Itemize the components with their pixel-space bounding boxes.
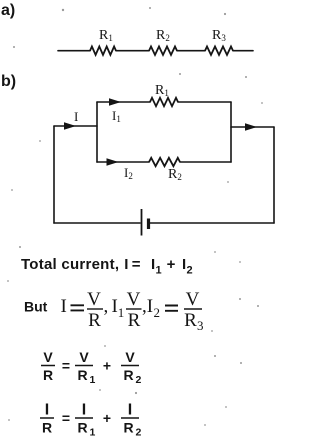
svg-text:R: R bbox=[184, 310, 197, 331]
resistor R3 bbox=[205, 47, 233, 55]
wire right vertical bbox=[273, 127, 275, 223]
svg-text:R: R bbox=[123, 367, 133, 383]
svg-text:+: + bbox=[103, 358, 111, 374]
resistor R2 bbox=[149, 47, 177, 55]
wire main input bbox=[54, 125, 97, 127]
wire output bbox=[231, 126, 274, 128]
svg-text:I: I bbox=[124, 256, 128, 273]
svg-text:V: V bbox=[127, 289, 141, 310]
svg-text:3: 3 bbox=[197, 318, 204, 333]
svg-text:V: V bbox=[79, 349, 89, 365]
arrow I bbox=[64, 122, 76, 130]
svg-text:1: 1 bbox=[90, 427, 96, 439]
svg-text:R: R bbox=[42, 420, 52, 436]
svg-text:2: 2 bbox=[154, 305, 161, 320]
arrow out bbox=[245, 123, 257, 131]
svg-text:R: R bbox=[88, 310, 101, 331]
wire bbox=[177, 50, 205, 52]
svg-text:=: = bbox=[62, 358, 70, 374]
arrow I1 bbox=[109, 98, 121, 106]
svg-text:1: 1 bbox=[90, 374, 96, 386]
svg-text:=: = bbox=[62, 410, 70, 426]
wire junction right bbox=[230, 102, 232, 162]
wire top branch right bbox=[178, 101, 231, 103]
wire bottom left bbox=[54, 222, 140, 224]
svg-text:R: R bbox=[77, 420, 87, 436]
svg-text:1: 1 bbox=[156, 265, 162, 277]
svg-text:2: 2 bbox=[136, 427, 142, 439]
arrow I2 bbox=[107, 158, 119, 166]
svg-text:R: R bbox=[77, 367, 87, 383]
wire bottom branch left bbox=[97, 161, 149, 163]
svg-text:+: + bbox=[167, 256, 176, 273]
svg-text:But: But bbox=[24, 299, 48, 315]
wire junction left bbox=[96, 102, 98, 162]
svg-text:b): b) bbox=[1, 73, 16, 90]
svg-text:V: V bbox=[43, 349, 53, 365]
battery bbox=[141, 209, 143, 236]
svg-text:Total current,: Total current, bbox=[21, 256, 119, 273]
svg-text:1: 1 bbox=[118, 305, 125, 320]
svg-text:=: = bbox=[132, 256, 141, 273]
wire bottom branch right bbox=[180, 161, 231, 163]
svg-text:R: R bbox=[128, 310, 141, 331]
wire bbox=[58, 50, 90, 52]
svg-text:,: , bbox=[104, 296, 109, 317]
svg-text:V: V bbox=[125, 349, 135, 365]
svg-text:I: I bbox=[45, 402, 49, 419]
resistor R1 bbox=[90, 47, 116, 55]
svg-text:V: V bbox=[87, 289, 101, 310]
svg-text:+: + bbox=[103, 410, 111, 426]
svg-text:I: I bbox=[74, 109, 78, 124]
svg-text:2: 2 bbox=[136, 374, 142, 386]
wire bbox=[116, 50, 149, 52]
wire bottom right bbox=[150, 222, 274, 224]
svg-text:a): a) bbox=[1, 2, 15, 19]
svg-text:I: I bbox=[82, 402, 86, 419]
svg-text:R: R bbox=[43, 367, 53, 383]
wire top branch left bbox=[97, 101, 150, 103]
resistor R2 bbox=[149, 158, 180, 166]
svg-text:I: I bbox=[128, 402, 132, 419]
svg-text:2: 2 bbox=[187, 265, 193, 277]
wire left vertical bbox=[53, 126, 55, 223]
svg-text:I: I bbox=[147, 296, 153, 317]
svg-text:I: I bbox=[61, 296, 67, 317]
svg-text:R: R bbox=[123, 420, 133, 436]
wire bbox=[233, 50, 253, 52]
resistor R1 bbox=[150, 98, 178, 106]
svg-text:V: V bbox=[186, 289, 200, 310]
scan specks (noise) bbox=[62, 9, 64, 11]
